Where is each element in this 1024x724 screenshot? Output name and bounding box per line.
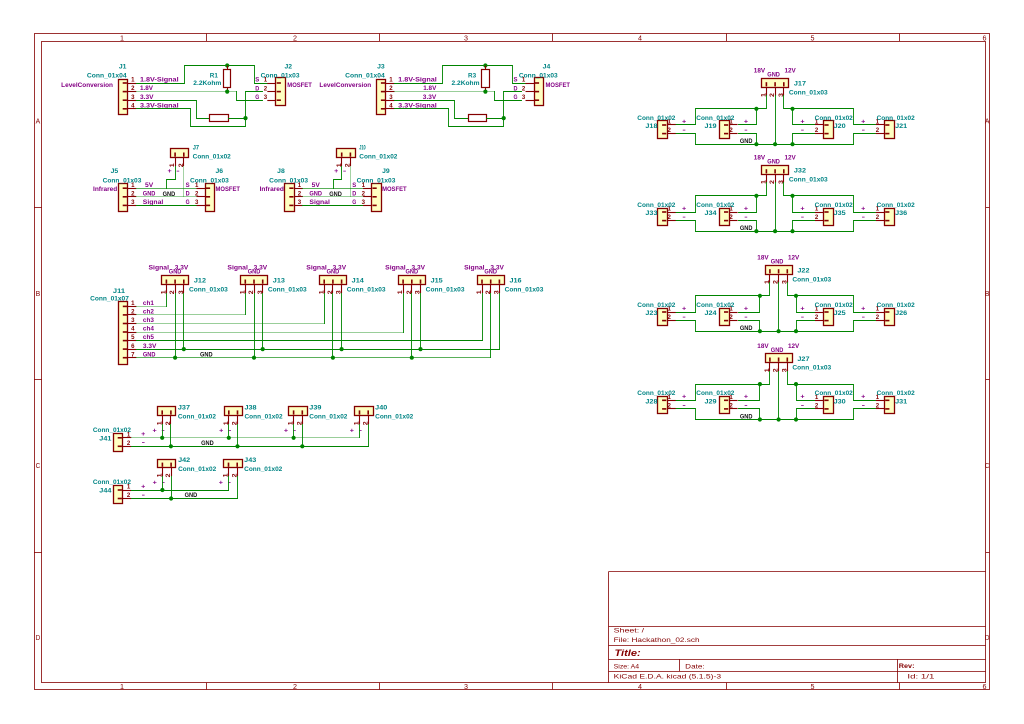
title block id field <box>907 673 935 680</box>
svg-text:1: 1 <box>120 684 124 691</box>
svg-text:18V: 18V <box>754 68 766 75</box>
svg-text:3: 3 <box>362 199 366 206</box>
svg-text:File: Hackathon_02.sch: File: Hackathon_02.sch <box>614 637 701 644</box>
svg-text:J37: J37 <box>178 405 191 412</box>
svg-text:Conn_01x03: Conn_01x03 <box>103 178 142 185</box>
svg-text:2: 2 <box>815 127 819 134</box>
junction 12V <box>794 294 798 298</box>
value Conn_01x02 of J18 <box>637 115 676 122</box>
net label GND at J14 <box>327 269 340 276</box>
svg-text:2: 2 <box>264 85 268 92</box>
value Conn_01x02 of J20 <box>815 115 854 122</box>
svg-text:Conn_01x04: Conn_01x04 <box>345 73 385 80</box>
net label + at J39 <box>284 427 289 434</box>
pin numbers of J21 <box>876 119 880 135</box>
wire J40 pin1 to + rail <box>359 425 361 438</box>
junction J12 pin2 GND <box>173 356 177 360</box>
net label 12V <box>785 68 797 75</box>
wire J36 pin2 to rail <box>854 221 876 232</box>
connector J16 <box>476 276 504 295</box>
svg-text:+: + <box>682 394 687 401</box>
connector J39 <box>288 407 308 426</box>
svg-text:-: - <box>343 168 346 175</box>
junction rail right <box>794 417 798 421</box>
svg-text:2: 2 <box>876 314 880 321</box>
svg-text:A: A <box>36 118 41 125</box>
svg-text:C: C <box>36 463 41 470</box>
net label GND (black) at rail <box>740 225 753 232</box>
net label GND (black) at rail <box>740 325 753 332</box>
wire J18 pin1 <box>676 124 696 126</box>
wire J31 pin2 to rail <box>854 409 876 420</box>
wire 5V row <box>137 188 197 190</box>
svg-text:J2: J2 <box>285 64 293 71</box>
net label + at J29 <box>744 394 749 401</box>
wire J25 pin2 to rail <box>797 321 816 332</box>
reference J8 <box>277 168 285 175</box>
svg-text:2: 2 <box>293 35 297 42</box>
svg-text:2: 2 <box>668 127 672 134</box>
svg-text:1.8V-Signal: 1.8V-Signal <box>140 77 179 84</box>
wire 12V to J35 <box>793 196 816 213</box>
net label Signal <box>309 199 330 206</box>
net label GND (black) <box>329 191 342 198</box>
net label + at J43 <box>219 480 224 487</box>
wire - rail <box>132 498 238 500</box>
svg-text:12V: 12V <box>788 255 800 262</box>
wire drain link <box>246 92 263 119</box>
svg-text:3: 3 <box>464 35 468 42</box>
svg-text:J3: J3 <box>377 64 385 71</box>
svg-text:J15: J15 <box>431 277 444 284</box>
svg-text:2: 2 <box>131 190 135 197</box>
svg-text:D: D <box>255 85 259 92</box>
net label - at J38 <box>228 427 231 434</box>
net label - at J34 <box>744 214 747 221</box>
pin names and numbers of J2 <box>255 77 267 101</box>
value Conn_01x02 of J26 <box>877 302 916 309</box>
svg-text:12V: 12V <box>788 343 800 350</box>
svg-text:G: G <box>186 199 190 206</box>
svg-text:2: 2 <box>131 85 135 92</box>
wire J14 pin2 to GND rail <box>332 294 334 358</box>
net label ch2 <box>143 309 154 316</box>
svg-text:3: 3 <box>389 94 393 101</box>
junction 18V <box>754 194 758 198</box>
svg-text:J1: J1 <box>119 64 127 71</box>
wire 12V jog right <box>788 283 876 313</box>
reference J35 <box>834 210 847 217</box>
svg-text:B: B <box>985 291 990 298</box>
connector J44 <box>114 486 132 504</box>
svg-text:R3: R3 <box>468 73 477 80</box>
svg-text:J40: J40 <box>375 405 388 412</box>
reference J14 <box>352 277 365 284</box>
svg-text:J23: J23 <box>645 310 658 317</box>
wire 18V jog left <box>696 283 770 313</box>
svg-text:6: 6 <box>983 684 987 691</box>
value Conn_01x02 of J35 <box>815 202 854 209</box>
wire 12V jog right <box>788 372 876 401</box>
svg-text:J8: J8 <box>277 168 285 175</box>
net label + at J42 <box>153 480 158 487</box>
junction J42 pin1 <box>160 488 164 492</box>
field LevelConversion of J3 <box>319 82 371 89</box>
svg-text:Conn_01x02: Conn_01x02 <box>877 390 916 397</box>
wire + rail <box>132 490 229 492</box>
wire J17 pin2 to GND rail <box>775 96 777 145</box>
svg-text:J29: J29 <box>705 399 718 406</box>
svg-text:S: S <box>514 77 518 84</box>
svg-text:Conn_01x03: Conn_01x03 <box>792 365 831 372</box>
net label - at J44 <box>142 492 145 499</box>
svg-text:J14: J14 <box>352 277 365 284</box>
net label 3.3V at J14 <box>333 264 347 271</box>
svg-text:J18: J18 <box>645 123 658 130</box>
title block size field <box>614 664 640 671</box>
pin names and numbers of J9 <box>352 182 365 206</box>
pin numbers of J24 <box>729 306 733 322</box>
svg-text:6: 6 <box>131 343 135 350</box>
svg-text:+: + <box>800 394 805 401</box>
reference J9 <box>382 168 390 175</box>
pin numbers of J34 <box>729 206 733 222</box>
wire J39 pin2 to - rail <box>302 425 304 447</box>
svg-text:J13: J13 <box>273 277 286 284</box>
connector J2 <box>267 78 285 106</box>
net label GND at J13 <box>248 269 261 276</box>
svg-text:J9: J9 <box>382 168 390 175</box>
net label 12V <box>785 155 797 162</box>
svg-text:GND: GND <box>201 440 214 447</box>
net label GND (black) at rail <box>740 138 753 145</box>
net label 12V <box>788 343 800 350</box>
net label + at J18 <box>682 118 687 125</box>
svg-text:J39: J39 <box>309 405 322 412</box>
net label + at J41 <box>141 431 146 438</box>
svg-text:1.8V-Signal: 1.8V-Signal <box>398 77 437 84</box>
reference J15 <box>431 277 444 284</box>
junction rail left <box>754 229 758 233</box>
svg-text:J36: J36 <box>895 210 908 217</box>
svg-text:-: - <box>744 127 747 134</box>
connector J29 <box>720 397 738 414</box>
net label 3.3V at J12 <box>175 264 189 271</box>
net label 1.8V <box>423 85 437 92</box>
net label 3.3V <box>423 94 437 101</box>
net label - at J33 <box>682 214 685 221</box>
connector J35 <box>815 209 834 226</box>
value Conn_01x02 of J41 <box>93 427 132 434</box>
wire ch1 net <box>137 306 167 308</box>
svg-text:GND: GND <box>185 492 198 499</box>
svg-text:Conn_01x03: Conn_01x03 <box>792 276 831 283</box>
wire J28 pin1 <box>676 400 696 402</box>
wire J12 pin2 to GND rail <box>175 294 177 358</box>
svg-text:KiCad E.D.A. kicad (5.1.5)-3: KiCad E.D.A. kicad (5.1.5)-3 <box>614 673 722 680</box>
net label 3.3V <box>140 94 154 101</box>
reference J10 <box>359 144 366 151</box>
wire 18V jog left <box>696 183 767 213</box>
svg-text:Conn_01x02: Conn_01x02 <box>309 414 348 421</box>
svg-text:2: 2 <box>876 127 880 134</box>
svg-text:-: - <box>862 127 865 134</box>
net label 3.3V at J13 <box>254 264 268 271</box>
svg-text:J11: J11 <box>113 288 126 295</box>
svg-text:2: 2 <box>668 214 672 221</box>
svg-text:Conn_01x02: Conn_01x02 <box>637 390 676 397</box>
title block sheet field <box>614 628 645 635</box>
reference J40 <box>375 405 388 412</box>
svg-text:3: 3 <box>522 94 526 101</box>
wire ch5 vertical <box>482 294 484 341</box>
svg-text:Conn_01x03: Conn_01x03 <box>789 176 828 183</box>
svg-text:Conn_01x02: Conn_01x02 <box>93 479 132 486</box>
svg-text:GND: GND <box>740 225 753 232</box>
wire J16 pin2 to GND rail <box>490 294 492 358</box>
svg-text:Conn_01x02: Conn_01x02 <box>815 115 854 122</box>
junction J14 pin2 GND <box>331 356 335 360</box>
reference J4 <box>543 64 551 71</box>
svg-text:1: 1 <box>389 77 393 84</box>
value Conn_01x02 of J31 <box>877 390 916 397</box>
net label 3.3V <box>143 343 157 350</box>
svg-text:3.3V: 3.3V <box>412 264 426 271</box>
connector J33 <box>658 209 676 226</box>
svg-text:Conn_01x02: Conn_01x02 <box>359 153 398 160</box>
svg-text:Conn_01x03: Conn_01x03 <box>189 287 228 294</box>
svg-text:2: 2 <box>131 309 135 316</box>
svg-text:3: 3 <box>298 199 302 206</box>
net label + at J31 <box>861 394 866 401</box>
net label + at J33 <box>682 205 687 212</box>
svg-text:3: 3 <box>131 94 135 101</box>
wire J10 pin2 to GND <box>350 167 352 197</box>
junction 12V <box>790 107 794 111</box>
wire ch3 vertical <box>324 294 326 324</box>
svg-text:J21: J21 <box>895 123 908 130</box>
net label Signal at J14 <box>306 264 327 271</box>
svg-text:2: 2 <box>522 85 526 92</box>
wire J15 pin2 to GND rail <box>411 294 413 358</box>
net label - at J41 <box>142 440 145 447</box>
svg-text:+: + <box>284 427 289 434</box>
connector J1 <box>119 80 137 115</box>
junction J13 pin2 GND <box>252 356 256 360</box>
svg-text:Date:: Date: <box>685 664 705 671</box>
svg-text:2: 2 <box>876 403 880 410</box>
svg-text:J4: J4 <box>543 64 551 71</box>
svg-text:-: - <box>744 402 747 409</box>
connector J24 <box>720 309 738 326</box>
svg-text:J24: J24 <box>705 310 718 317</box>
svg-text:+: + <box>334 168 339 175</box>
svg-text:Infrared: Infrared <box>260 186 284 193</box>
svg-text:5V: 5V <box>145 182 154 189</box>
svg-text:+: + <box>153 427 158 434</box>
value Conn_01x03 of J22 <box>792 276 831 283</box>
pin numbers of J19 <box>729 119 733 135</box>
svg-text:Id: 1/1: Id: 1/1 <box>907 673 935 680</box>
junction 18V <box>758 382 762 386</box>
reference J5 <box>111 168 119 175</box>
junction GND center <box>777 417 781 421</box>
net label Signal <box>143 199 164 206</box>
connector J41 <box>114 434 132 452</box>
value Conn_01x02 of J38 <box>245 414 284 421</box>
wire 18V jog left <box>696 96 767 125</box>
connector J3 <box>377 80 395 115</box>
wire J7 pin2 to GND <box>183 167 185 197</box>
svg-text:Conn_01x02: Conn_01x02 <box>877 115 916 122</box>
svg-text:+: + <box>744 305 749 312</box>
svg-text:+: + <box>682 118 687 125</box>
value Conn_01x02 of J30 <box>815 390 854 397</box>
wire J43 pin2 to - rail <box>237 477 239 499</box>
reference J41 <box>99 435 112 442</box>
wire 18V jog left <box>696 372 770 401</box>
title block outline <box>609 572 986 683</box>
svg-text:Conn_01x02: Conn_01x02 <box>93 427 132 434</box>
net label ch3 <box>143 317 154 324</box>
svg-text:1: 1 <box>120 35 124 42</box>
wire J33 pin2 to rail <box>676 221 696 232</box>
field MOSFET of J2 <box>287 82 312 89</box>
svg-text:GND: GND <box>767 72 780 79</box>
connector J20 <box>815 121 834 139</box>
reference J20 <box>834 123 847 130</box>
net label + at J24 <box>744 305 749 312</box>
svg-text:Rev:: Rev: <box>899 663 915 670</box>
junction J37 pin1 <box>160 436 164 440</box>
svg-text:+: + <box>800 305 805 312</box>
connector J4 <box>526 78 544 106</box>
value Conn_01x02 of J44 <box>93 479 132 486</box>
svg-text:D: D <box>985 635 990 642</box>
junction J42 pin2 <box>169 496 173 500</box>
pin numbers of J31 <box>876 394 880 410</box>
value Conn_01x02 of J24 <box>696 302 735 309</box>
svg-text:J19: J19 <box>705 123 718 130</box>
wire J18 pin2 to rail <box>676 134 696 145</box>
svg-text:2: 2 <box>127 492 131 499</box>
connector J28 <box>658 397 676 414</box>
net label Signal at J13 <box>227 264 248 271</box>
net label GND (black) rail <box>201 440 214 447</box>
reference J23 <box>645 310 658 317</box>
reference J6 <box>216 168 224 175</box>
net label ch4 <box>143 326 154 333</box>
svg-text:Sheet: /: Sheet: / <box>614 628 645 635</box>
svg-text:Conn_01x03: Conn_01x03 <box>347 287 386 294</box>
svg-text:+: + <box>682 305 687 312</box>
net label GND (black) rail <box>185 492 198 499</box>
svg-text:1: 1 <box>362 182 366 189</box>
wire 1.8V-Signal net <box>137 66 268 84</box>
svg-text:MOSFET: MOSFET <box>546 82 571 89</box>
net label GND at J32 <box>767 159 780 166</box>
svg-text:Conn_01x02: Conn_01x02 <box>178 466 217 473</box>
junction rail right <box>794 329 798 333</box>
svg-text:B: B <box>36 291 41 298</box>
resistor R2 <box>0 97 229 122</box>
connector J8 <box>285 184 303 212</box>
svg-text:J10: J10 <box>359 144 366 151</box>
connector J22 <box>764 266 793 285</box>
net label + at J7 pin 1 <box>168 168 173 175</box>
svg-text:5: 5 <box>131 334 135 341</box>
net label GND <box>143 351 156 358</box>
svg-text:3: 3 <box>464 684 468 691</box>
reference J28 <box>645 399 658 406</box>
svg-text:J35: J35 <box>834 210 847 217</box>
svg-text:S: S <box>186 182 190 189</box>
connector J36 <box>876 209 895 226</box>
wire ch4 vertical <box>403 294 405 333</box>
svg-text:J28: J28 <box>645 399 658 406</box>
wire J24 pin2 to rail <box>739 321 760 332</box>
pin numbers of J29 <box>729 394 733 410</box>
wire 1.8V net <box>395 91 495 93</box>
reference J44 <box>99 488 112 495</box>
svg-text:Conn_01x02: Conn_01x02 <box>193 153 232 160</box>
net label 5V <box>312 182 321 189</box>
svg-text:J31: J31 <box>895 399 908 406</box>
net label - at J35 <box>801 214 804 221</box>
svg-text:Conn_01x02: Conn_01x02 <box>696 302 735 309</box>
svg-text:2: 2 <box>127 440 131 447</box>
svg-text:1: 1 <box>131 182 135 189</box>
svg-text:ch1: ch1 <box>143 300 154 307</box>
svg-text:4: 4 <box>131 102 135 109</box>
svg-text:+: + <box>744 118 749 125</box>
net label GND at J27 <box>771 347 784 354</box>
connector J13 <box>239 276 267 295</box>
svg-text:J41: J41 <box>99 435 112 442</box>
resistor R3 <box>452 66 490 92</box>
value Conn_01x02 of J28 <box>637 390 676 397</box>
svg-text:1: 1 <box>298 182 302 189</box>
net label + at J37 <box>153 427 158 434</box>
net label 3.3V at J15 <box>412 264 426 271</box>
svg-text:Size: A4: Size: A4 <box>614 664 640 671</box>
pin numbers of J44 <box>127 484 131 500</box>
wire J13 pin3 to 3.3V rail <box>262 294 264 350</box>
title block rev field <box>899 663 915 670</box>
svg-text:3.3V: 3.3V <box>140 94 154 101</box>
connector J43 <box>223 460 243 478</box>
pin numbers of J20 <box>815 119 819 135</box>
title block file field <box>614 637 701 644</box>
wire J23 pin1 <box>676 312 696 314</box>
field Infrared of J8 <box>260 186 284 193</box>
pin numbers of J28 <box>668 394 672 410</box>
pin numbers of J25 <box>815 306 819 322</box>
svg-text:18V: 18V <box>757 255 769 262</box>
value Conn_01x03 of J9 <box>357 178 396 185</box>
svg-text:+: + <box>219 480 224 487</box>
svg-text:-: - <box>682 127 685 134</box>
wire J43 pin1 to + rail <box>228 477 230 491</box>
value Conn_01x02 of J37 <box>178 414 217 421</box>
title block title field <box>615 648 641 658</box>
svg-text:Conn_01x02: Conn_01x02 <box>637 202 676 209</box>
wire 3.3V rail <box>137 349 500 351</box>
svg-text:Title:: Title: <box>615 648 641 658</box>
value Conn_01x04 of J1 <box>87 73 127 80</box>
svg-text:-: - <box>862 402 865 409</box>
reference J2 <box>285 64 293 71</box>
